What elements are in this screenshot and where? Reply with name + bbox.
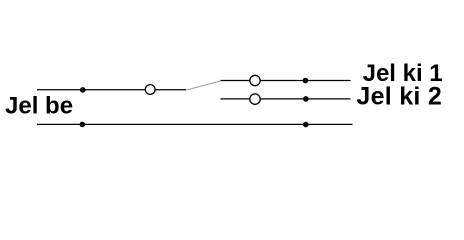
svg-text:Jel be: Jel be [5,93,73,120]
svg-text:Jel ki 2: Jel ki 2 [356,83,442,111]
